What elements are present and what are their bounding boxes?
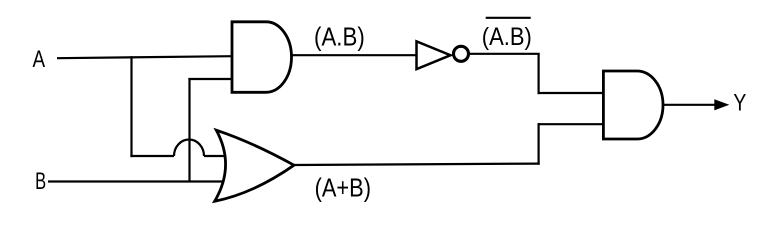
and-gate U1 — [232, 22, 292, 93]
wire NOT1 output horizontal — [467, 53, 540, 55]
wire A branch vertical drop — [130, 56, 132, 157]
wire to AND2 pin 1 — [538, 92, 605, 94]
svg-text:Y: Y — [733, 90, 746, 117]
wire A branch to OR1 pin 1 — [204, 155, 224, 157]
wire hop over B branch — [174, 140, 204, 156]
wire B branch to AND1 pin 2 — [188, 78, 232, 80]
wire OR1 output vertical riser — [537, 123, 539, 165]
svg-text:(A+B): (A+B) — [315, 173, 371, 203]
not-gate U2 inversion bubble — [454, 46, 469, 61]
svg-text:(A.B): (A.B) — [314, 21, 365, 51]
and-gate U4 — [603, 71, 663, 139]
svg-text:A: A — [33, 46, 46, 73]
output arrowhead — [714, 99, 729, 110]
wire NOT1 output vertical drop — [537, 54, 539, 94]
wire AND1 output to NOT1 input — [292, 54, 418, 56]
not-gate U2 triangle — [417, 41, 451, 69]
wire to AND2 pin 2 — [538, 123, 605, 125]
wire A branch horizontal to hop — [130, 155, 174, 157]
or-gate U3 — [215, 130, 294, 201]
wire B branch vertical riser — [188, 78, 190, 182]
wire A input to AND1 pin 1 — [57, 56, 232, 58]
overline bar of inverted node label — [486, 17, 531, 19]
svg-text:(A.B): (A.B) — [482, 23, 532, 51]
wire B input to OR1 pin 2 — [48, 180, 222, 182]
wire OR1 output horizontal — [293, 164, 540, 165]
wire AND2 output to arrow — [662, 104, 716, 106]
svg-text:B: B — [35, 168, 46, 195]
